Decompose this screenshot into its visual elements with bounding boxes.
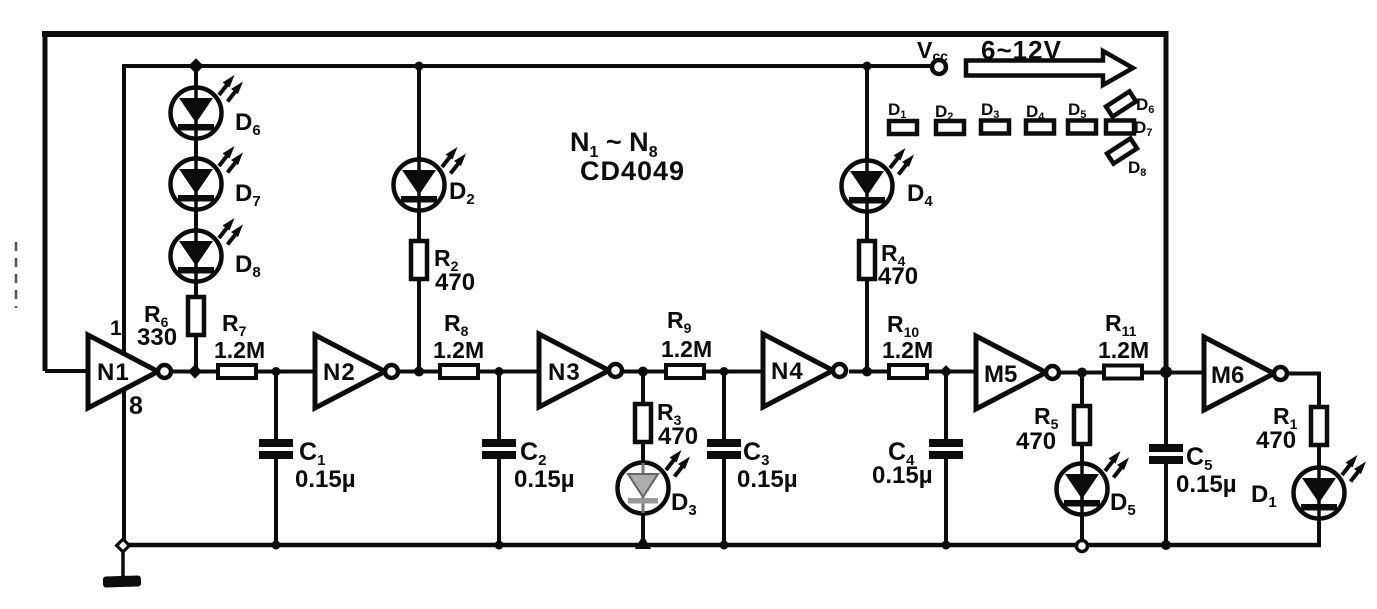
resistor R6 330 [137,297,204,351]
node M5out-R5 [1077,368,1087,378]
wire pin1 lead [122,64,126,352]
svg-text:1.2M: 1.2M [661,336,712,362]
wire ground stub [121,545,125,577]
node rail-D2 [415,62,424,71]
svg-text:330: 330 [137,324,177,351]
node N3out-R3 [638,367,648,377]
node R10-C4 [940,365,953,378]
LED D8 [171,218,261,282]
wire C3 branch [722,372,726,546]
LED D6 [171,75,261,139]
resistor R8 1.2M [433,310,484,378]
LED D5 [1057,451,1136,519]
wire top border [42,31,1166,37]
wire R5-D5 branch [1080,373,1084,546]
wire pin8 lead [122,391,126,545]
LED D7 [171,146,261,210]
svg-text:470: 470 [658,423,698,450]
wire N4 out to M5 [849,370,976,374]
node C2-gnd [495,541,504,550]
node C4-gnd [942,541,951,550]
LED D1 [1251,455,1366,519]
node N1out-R6 [188,364,202,378]
svg-text:0.15µ: 0.15µ [295,466,356,493]
svg-text:N1: N1 [97,359,130,386]
node rail-D6 [188,58,204,74]
wire bottom rail [121,543,1321,548]
node N2out-R2 [414,367,424,377]
resistor R1 470 [1256,403,1327,454]
svg-text:470: 470 [1256,427,1296,454]
resistor R10 1.2M [882,311,933,378]
wire C5 branch [1164,372,1168,545]
wire R3-D3 branch [641,372,645,546]
wire R1-D1 branch [1317,405,1321,547]
inverter M5 [976,336,1059,409]
legend LED D1 [888,100,917,134]
node rail-D4 [863,62,872,71]
wire D6-D8 branch [194,66,198,372]
inverter N2 [315,335,398,408]
ground [103,575,141,587]
svg-text:N4: N4 [771,358,804,385]
svg-text:M5: M5 [984,361,1017,388]
resistor R9 1.2M [661,307,712,378]
svg-text:1.2M: 1.2M [1098,337,1149,363]
wire M6 output corner [1284,374,1319,413]
svg-text:1: 1 [110,317,122,340]
wire C2 branch [497,372,501,546]
wire C1 branch [274,372,278,546]
svg-text:1.2M: 1.2M [882,337,933,363]
resistor R7 1.2M [214,310,265,378]
LED D2 [394,147,475,211]
node D3-gnd [635,535,651,549]
inverter N4 [763,334,846,407]
wire D4-R4 branch [865,66,869,372]
resistor R5 470 [1016,403,1090,455]
resistor R3 470 [635,399,698,450]
svg-text:8: 8 [129,392,143,420]
svg-text:1.2M: 1.2M [433,337,484,363]
legend LED D4 [1026,102,1054,134]
svg-text:470: 470 [878,263,918,290]
wire N3 out to N4 [619,370,763,374]
svg-text:470: 470 [1016,428,1056,455]
inverter N3 [539,334,622,407]
op-amp/inverter N1 [88,335,171,408]
node R9-C3 [720,367,729,376]
legend LED D6 [1106,91,1154,116]
node R7-C1 [272,367,281,376]
capacitor C4 0.15u [872,438,963,489]
legend LED D2 [935,102,964,134]
svg-text:0.15µ: 0.15µ [1176,471,1237,498]
wire N1 input [45,369,88,373]
capacitor C3 0.15u [707,438,798,493]
node R8-C2 [495,367,504,376]
svg-text:0.15µ: 0.15µ [872,462,933,489]
svg-text:M6: M6 [1211,362,1244,389]
Vcc terminal [932,60,946,74]
scan artifact dashes [15,242,18,308]
svg-text:0.15µ: 0.15µ [737,466,798,493]
wire right border [1164,31,1169,372]
legend LED D5 [1068,100,1096,134]
node C5-gnd [1161,540,1171,550]
legend LED D8 [1107,138,1146,179]
node R11-C5 feedback [1160,366,1172,378]
capacitor C2 0.15u [482,438,575,493]
svg-text:470: 470 [435,269,475,296]
legend LED D3 [981,100,1009,134]
wire N1 out to N2 [170,370,315,374]
capacitor C1 0.15u [259,438,356,493]
capacitor C5 0.15u [1149,443,1237,498]
resistor R11 1.2M [1098,310,1149,379]
node D5-gnd [1077,541,1088,552]
node N4out-R4 [862,367,872,377]
inverter M6 [1204,337,1287,410]
wire D2-R2 branch [417,66,421,372]
svg-text:6~12V: 6~12V [981,35,1062,65]
wire C4 branch [944,372,948,546]
resistor R4 470 [859,240,918,290]
svg-text:N2: N2 [323,359,356,386]
svg-text:CD4049: CD4049 [580,156,685,186]
svg-text:0.15µ: 0.15µ [514,466,575,493]
wire M5 out to M6 [1056,371,1204,375]
node pin8-gnd [117,539,130,552]
legend LED D7 [1106,118,1152,139]
wire N2 out to N3 [396,370,539,374]
LED D4 [842,148,934,212]
supply arrow 6~12V [966,51,1133,85]
svg-text:1.2M: 1.2M [214,337,265,363]
LED D3 [618,450,697,519]
node C1-gnd [272,541,281,550]
svg-text:N3: N3 [548,359,581,386]
resistor R2 470 [411,241,475,296]
wire Vcc rail [124,64,931,68]
wire left border [43,31,48,371]
node C3-gnd [720,541,729,550]
